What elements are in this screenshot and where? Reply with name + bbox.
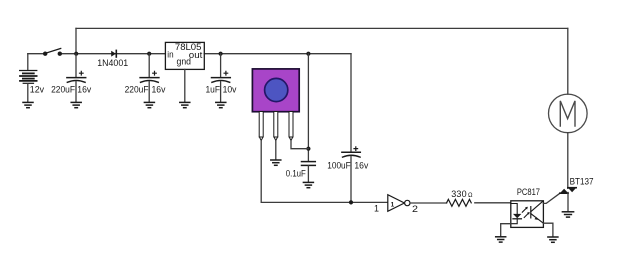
wire: pin1 signal down and right [261,141,388,203]
node: junction bus / C3 [219,52,223,56]
node: junction sensor pin3 / C4 [306,147,310,151]
sensor pin 3 [289,112,293,141]
capacitor C2 220uF electrolytic [140,54,159,102]
wire: opto output to triac gate [543,193,560,203]
svg-text:12v: 12v [30,84,45,94]
wire: bus switch to regulator input [60,53,166,55]
svg-text:1N4001: 1N4001 [97,58,128,68]
capacitor C1 220uF electrolytic [67,54,86,102]
wire: opto pin2 to ground [501,224,511,237]
switch S1 [43,48,62,56]
wire: +12V top rail [76,27,568,29]
wire: left riser from bus to top rail [75,28,77,53]
svg-text:220uF: 220uF [51,84,75,94]
capacitor C4 0.1uF [302,162,316,166]
ground (triac) [562,212,573,217]
svg-text:16v: 16v [77,84,91,94]
resistor R1 330 ohm [447,199,472,206]
wire: opto emitter to ground [543,223,553,236]
svg-text:gnd: gnd [177,57,192,67]
ground (opto pin2) [496,237,506,242]
ground (battery) [23,102,33,107]
svg-text:330Ω: 330Ω [451,189,473,199]
svg-text:PC817: PC817 [517,187,540,197]
wire: right riser from top rail to motor [567,28,569,94]
wire: resistor to optocoupler [475,202,511,204]
wire: pin2 to ground [275,141,277,160]
triac Q1 BT137 [560,188,576,212]
wire: regulator gnd down [184,69,186,102]
svg-text:0.1uF: 0.1uF [286,168,306,178]
svg-text:1: 1 [374,204,379,215]
wire: bus regulator output to corner [204,53,351,55]
wire: C4 to ground [307,166,309,182]
ground (C1) [71,102,81,107]
diode D1 1N4001 [111,50,116,57]
svg-text:1uF: 1uF [206,85,221,95]
ground (regulator) [180,102,190,107]
wire: gate output to resistor [410,202,447,204]
motor M1 [549,94,588,133]
capacitor C3 1uF electrolytic [212,54,231,102]
node: junction bus / C1 / top rail [74,52,78,56]
wire: pin3 to supply branch [291,141,308,149]
svg-text:220uF: 220uF [125,84,149,94]
wire: motor to triac [567,133,569,189]
svg-text:16v: 16v [354,161,368,171]
node: junction bus / C2 [147,52,151,56]
ground (C4) [303,182,313,187]
regulator U1 78L05 [165,42,204,69]
svg-text:in: in [167,50,173,60]
sensor pin 2 [274,112,278,141]
sensor module (purple) [252,69,299,112]
capacitor C5 100uF electrolytic [342,147,360,203]
node: junction C5 / signal wire [349,200,353,204]
ground (opto emitter) [548,237,558,242]
ground (C2) [144,102,154,107]
svg-text:1: 1 [391,201,395,208]
wire: bus corner down through C5 to signal line [350,54,352,152]
svg-text:10v: 10v [223,85,237,95]
inverter gate U3 [388,195,410,212]
battery B1 12v [20,54,37,102]
optocoupler U2 PC817 [511,201,544,228]
svg-text:2: 2 [412,204,418,215]
sensor pin 1 [259,112,263,141]
svg-text:100uF: 100uF [327,161,351,171]
wire: bus battery to switch [28,53,45,55]
ground (pin2) [271,160,281,165]
ground (C3) [216,102,226,107]
svg-text:16v: 16v [152,84,166,94]
node: junction bus / sensor supply branch [306,52,310,56]
wire: supply branch down to C4 [307,54,309,161]
svg-text:BT137: BT137 [570,177,594,187]
